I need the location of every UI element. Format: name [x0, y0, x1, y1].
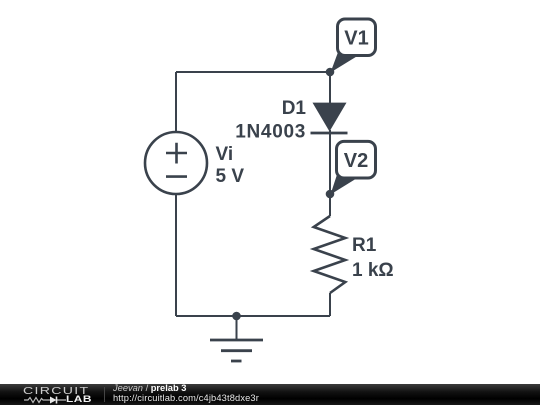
- wire left vertical lower (source bottom lead): [175, 194, 177, 316]
- svg-text:D1: D1: [282, 98, 307, 119]
- svg-text:5 V: 5 V: [216, 166, 245, 187]
- svg-text:V2: V2: [344, 150, 368, 172]
- svg-text:R1: R1: [352, 235, 377, 256]
- svg-text:V1: V1: [344, 28, 368, 50]
- footer bar: [0, 384, 540, 405]
- node V2 junction dot: [326, 190, 335, 199]
- diode D1: [311, 103, 348, 133]
- CircuitLab logo wordmark LAB: [66, 394, 92, 404]
- footer title: Jeevan / prelab 3: [113, 383, 186, 393]
- resistor R1: [314, 216, 346, 293]
- CircuitLab logo resistor-diode glyph: [24, 396, 66, 404]
- ground: [210, 316, 263, 361]
- node V2 callout tail: [331, 172, 359, 195]
- voltage source Vi: [145, 132, 207, 194]
- svg-text:Vi: Vi: [216, 144, 234, 165]
- wire resistor bottom lead: [329, 293, 331, 316]
- footer separator: [104, 387, 105, 402]
- wire diode cathode to resistor top: [329, 130, 331, 216]
- node V1 callout tail: [331, 50, 360, 73]
- node V1 junction dot: [326, 68, 335, 77]
- wire bottom horizontal: [176, 315, 330, 317]
- node V1 callout box: [338, 19, 376, 56]
- wire right vertical top (node V1 to diode): [329, 72, 331, 103]
- svg-text:1 kΩ: 1 kΩ: [352, 260, 394, 281]
- footer url: [113, 393, 259, 403]
- wire left vertical upper (source top lead): [175, 72, 177, 132]
- wire top horizontal from source to diode branch: [176, 71, 330, 73]
- node V2 callout box: [337, 141, 376, 178]
- ground junction dot: [232, 312, 241, 321]
- CircuitLab logo wordmark CIRCUIT: [23, 385, 89, 397]
- svg-text:1N4003: 1N4003: [235, 122, 306, 143]
